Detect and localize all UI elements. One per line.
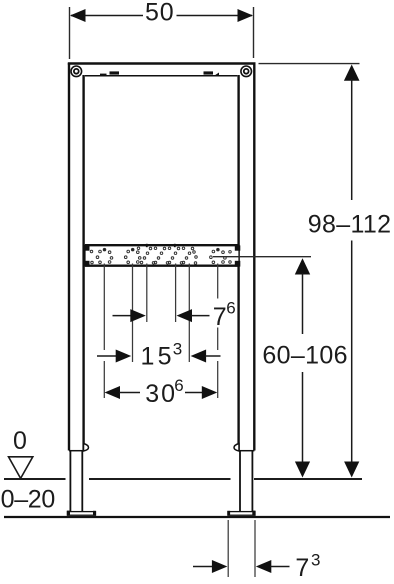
crossbar hole pattern xyxy=(90,247,231,264)
leader line F xyxy=(217,264,219,399)
svg-text:98–112: 98–112 xyxy=(308,210,392,238)
leader line E xyxy=(188,264,190,363)
svg-text:7: 7 xyxy=(213,303,227,331)
svg-text:60–106: 60–106 xyxy=(262,341,348,369)
dimension 50: extension line right xyxy=(253,7,255,58)
leader line A xyxy=(103,264,105,399)
right foot xyxy=(227,511,255,516)
right leg clamp notch xyxy=(234,444,239,452)
bolt circle top-left xyxy=(71,66,82,77)
crossbar clamp tabs xyxy=(84,245,90,250)
dimension 60-106: vertical line with arrows xyxy=(295,258,310,477)
left leg clamp notch xyxy=(84,444,89,452)
tick marks on crossbar top edge xyxy=(146,244,148,247)
leader line C xyxy=(146,264,148,323)
svg-text:6: 6 xyxy=(226,299,235,318)
dimension 50: dimension line with outward arrows xyxy=(70,9,253,22)
leader line D xyxy=(175,264,177,323)
right leg: rail bottom step xyxy=(239,450,254,452)
raw floor baseline xyxy=(4,516,390,518)
dimension 7-6: arrows and line xyxy=(113,309,210,322)
leader line B xyxy=(132,264,134,363)
left leg xyxy=(70,451,82,512)
svg-text:3: 3 xyxy=(311,551,320,570)
svg-text:15: 15 xyxy=(141,343,175,371)
svg-text:6: 6 xyxy=(174,376,183,395)
finished floor line (interrupted by legs) xyxy=(4,478,362,480)
dimension 7-3: extension lines xyxy=(228,520,255,577)
svg-text:0–20: 0–20 xyxy=(1,486,55,514)
perforated crossbar xyxy=(84,244,240,267)
svg-text:30: 30 xyxy=(145,380,177,408)
frame top rail xyxy=(68,64,256,77)
dimension 50: extension line left xyxy=(69,7,71,59)
frame right rail xyxy=(239,63,255,451)
left leg: rail bottom step xyxy=(69,450,84,452)
right leg xyxy=(240,451,252,512)
svg-text:3: 3 xyxy=(173,340,182,359)
dimension 30-6: arrows and line xyxy=(105,386,218,399)
svg-text:50: 50 xyxy=(145,0,174,26)
bolt circle top-right xyxy=(241,66,252,77)
floor level triangle marker xyxy=(9,457,33,479)
dimension 98-112: vertical line with arrows xyxy=(344,65,360,478)
dimension 7-3: arrows and line xyxy=(193,560,290,573)
clip marks on top rail xyxy=(100,74,107,77)
extension line for 60-106 at crossbar xyxy=(213,256,311,258)
left foot xyxy=(67,511,96,516)
dimension 15-3: arrows and line xyxy=(97,350,221,363)
svg-text:7: 7 xyxy=(295,554,309,582)
frame left rail xyxy=(69,63,84,451)
extension line for 98-112 at frame top xyxy=(259,63,360,65)
svg-text:0: 0 xyxy=(13,427,27,455)
